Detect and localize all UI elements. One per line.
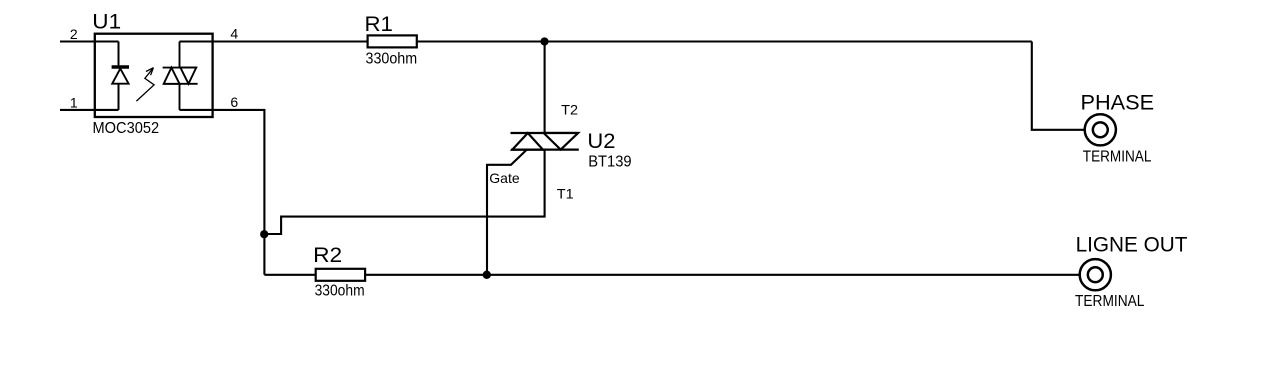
LED inside U1 (112, 42, 129, 110)
svg-text:TERMINAL: TERMINAL (1075, 293, 1145, 310)
resistor R2 (316, 269, 365, 281)
svg-text:U1: U1 (92, 8, 121, 33)
svg-text:R1: R1 (365, 11, 393, 36)
terminal LIGNE OUT (1080, 259, 1111, 290)
triac U2 (511, 133, 579, 150)
svg-text:T1: T1 (557, 185, 574, 201)
terminal PHASE (1085, 114, 1116, 145)
wire T1 (264, 150, 544, 234)
svg-text:6: 6 (230, 94, 238, 110)
wire pin 2 (60, 40, 119, 42)
wire down to PHASE terminal (1032, 42, 1085, 130)
optocoupler U1 body (95, 34, 213, 117)
svg-text:4: 4 (230, 26, 238, 42)
svg-text:330ohm: 330ohm (366, 51, 418, 68)
wire bottom rail left (264, 274, 315, 276)
svg-text:U2: U2 (587, 128, 615, 153)
wire R1 to corner (top rail) (417, 40, 1032, 42)
wire pin 4 to R1 (180, 40, 368, 42)
svg-text:MOC3052: MOC3052 (93, 120, 160, 137)
svg-text:PHASE: PHASE (1081, 90, 1155, 115)
resistor R1 (368, 35, 417, 47)
svg-text:330ohm: 330ohm (315, 283, 365, 300)
wire T2 (544, 42, 546, 134)
svg-text:1: 1 (70, 94, 78, 110)
svg-text:R2: R2 (313, 242, 342, 267)
light arrow (136, 68, 154, 101)
svg-text:Gate: Gate (489, 170, 520, 186)
svg-text:TERMINAL: TERMINAL (1083, 149, 1152, 166)
junction node T2/top rail (540, 37, 548, 45)
wire pin 6 (180, 110, 265, 275)
svg-text:T2: T2 (561, 101, 578, 117)
wire pin 1 (60, 109, 119, 111)
junction node A (T1 to pin6 wire) (260, 230, 268, 238)
wire R2 to LIGNE OUT (365, 274, 1080, 276)
svg-text:BT139: BT139 (588, 154, 631, 171)
junction node B (gate to bottom rail) (483, 271, 491, 279)
svg-text:2: 2 (70, 26, 78, 42)
svg-text:LIGNE OUT: LIGNE OUT (1076, 232, 1188, 257)
photo-triac inside U1 (163, 42, 198, 110)
wire gate (487, 150, 527, 275)
